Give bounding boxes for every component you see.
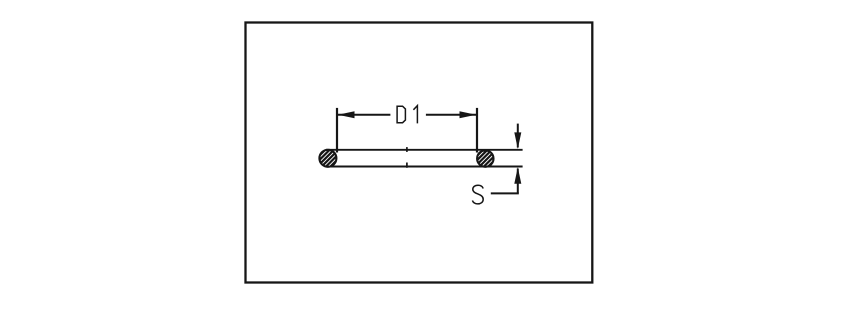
S leader horizontal line (491, 192, 519, 194)
S upper arrowhead (pointing down) (514, 132, 521, 149)
D1 arrowhead right (460, 111, 477, 118)
D1 extension line right (476, 108, 478, 153)
label D1 : letter D (397, 106, 405, 123)
S upper arrow line (517, 124, 519, 148)
cord section circle right (hatched) (477, 150, 493, 166)
cord section circle left (hatched) (319, 150, 336, 167)
D1 arrowhead left (338, 111, 355, 118)
centerline tick top (406, 147, 408, 152)
D1 extension line left (336, 108, 338, 153)
D1 dimension line right segment (426, 114, 477, 116)
centerline tick bottom (406, 163, 408, 168)
S lower arrow line (517, 169, 519, 194)
label D1 : letter 1 (413, 106, 417, 124)
S lower arrowhead (pointing up) (514, 167, 521, 184)
o-ring bottom silhouette line (326, 166, 523, 168)
D1 dimension line left segment (337, 114, 390, 116)
label S (472, 185, 483, 204)
o-ring top silhouette line (326, 149, 523, 151)
